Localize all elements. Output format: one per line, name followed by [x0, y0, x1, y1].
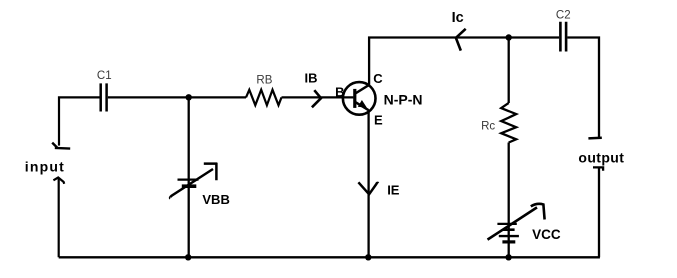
VCC variable arrow — [488, 204, 545, 240]
arrow Ic — [456, 29, 466, 51]
node base junction — [186, 94, 192, 100]
wire Rc to VCC battery — [508, 143, 510, 258]
battery VBB plate long — [178, 178, 199, 180]
input terminal upper hook — [52, 143, 70, 149]
svg-text:input: input — [25, 159, 65, 175]
svg-text:IE: IE — [387, 182, 400, 197]
svg-text:E: E — [374, 112, 383, 127]
resistor Rc — [501, 103, 516, 143]
wire emitter vertical — [367, 110, 369, 257]
wire VBB vertical — [188, 97, 190, 257]
output terminal upper bar — [588, 137, 601, 140]
wire bottom rail — [59, 256, 600, 258]
VBB variable arrow — [170, 163, 217, 198]
svg-text:C1: C1 — [97, 70, 112, 82]
arrow IB — [312, 90, 321, 107]
battery VCC plate 3 long — [499, 235, 519, 237]
transistor collector diagonal — [356, 85, 370, 94]
svg-text:B: B — [335, 85, 344, 100]
resistor RB — [246, 90, 282, 105]
svg-text:Rc: Rc — [481, 121, 495, 133]
transistor Q1 circle — [343, 82, 376, 115]
wire C2 to right vertical down — [567, 38, 599, 138]
output terminal lower hook — [593, 166, 603, 171]
wire left vertical + top segment to C1 — [59, 97, 100, 145]
wire collector up and top rail to C2 — [369, 38, 559, 85]
wire C1 to RB — [108, 96, 246, 98]
battery VCC plate 2 short — [503, 228, 514, 231]
capacitor C2 — [560, 22, 566, 52]
svg-text:C2: C2 — [556, 10, 571, 22]
svg-text:N-P-N: N-P-N — [384, 92, 423, 108]
node bottom emitter — [365, 254, 371, 260]
capacitor C1 — [101, 83, 107, 111]
node top Rc junction — [506, 34, 512, 40]
battery VBB plate short thick — [182, 184, 197, 188]
svg-text:VBB: VBB — [202, 192, 229, 207]
svg-text:Ic: Ic — [452, 10, 464, 26]
input terminal lower arrow — [53, 178, 64, 184]
transistor emitter diagonal — [356, 102, 369, 110]
wire Rc branch vertical top — [508, 38, 510, 104]
arrow IE — [358, 182, 378, 194]
svg-text:C: C — [373, 71, 383, 86]
battery VCC plate 4 short thick — [502, 240, 515, 243]
battery VCC plate 1 long — [497, 223, 516, 225]
transistor base bar — [353, 89, 356, 108]
wire input lower vertical — [58, 179, 60, 258]
svg-text:VCC: VCC — [532, 227, 561, 242]
svg-text:output: output — [578, 150, 624, 166]
node bottom VCC — [505, 254, 511, 260]
wire output lower vertical — [598, 167, 600, 257]
svg-text:IB: IB — [305, 70, 318, 85]
transistor emitter arrowhead — [358, 100, 367, 108]
svg-text:RB: RB — [256, 75, 272, 87]
node bottom VBB — [185, 254, 191, 260]
wire RB to base — [282, 96, 354, 98]
